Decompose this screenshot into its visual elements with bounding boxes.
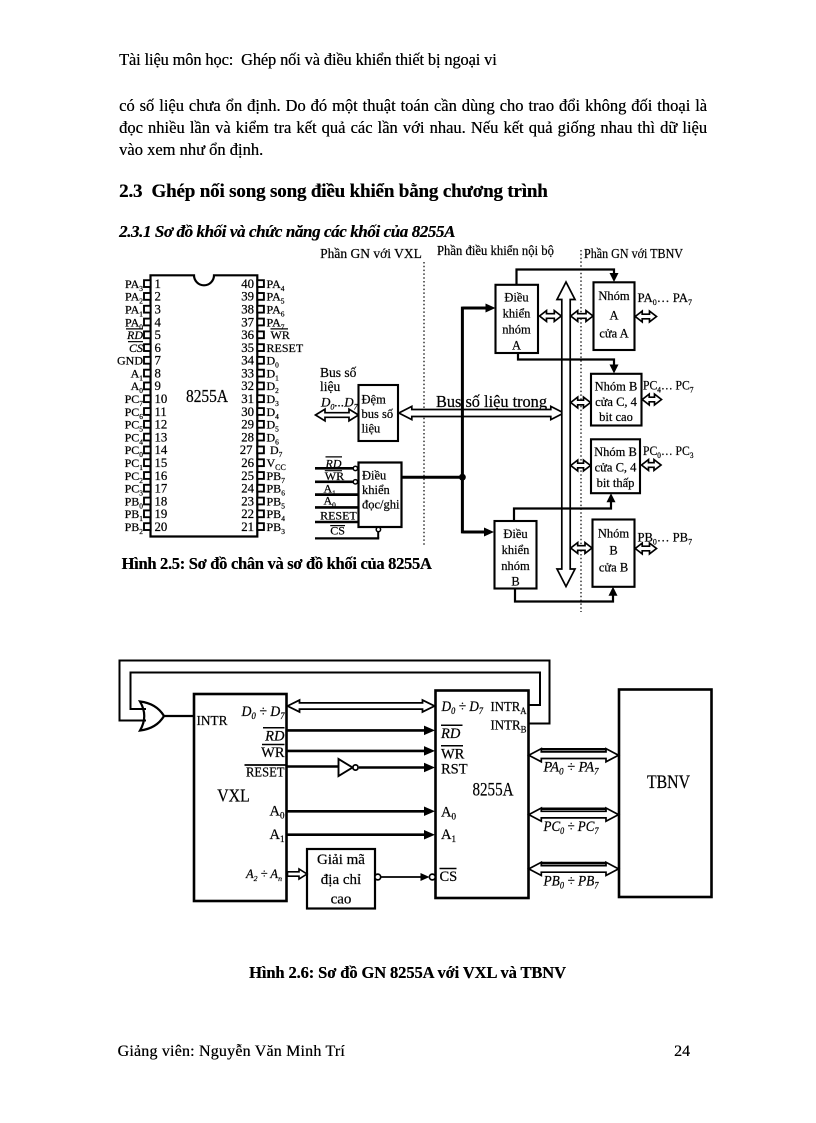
svg-text:PC0​… PC3​: PC0​… PC3​ bbox=[643, 443, 694, 460]
bus arrow: external data bus (double-headed open arrow) bbox=[316, 409, 359, 421]
svg-text:Nhóm: Nhóm bbox=[598, 527, 630, 541]
pin 10 (left) square, number and label bbox=[144, 395, 151, 402]
bus arrow: internal bus to Nhom B cua B bbox=[571, 543, 592, 554]
pin 20 (left) square, number and label bbox=[144, 523, 151, 530]
dotted divider line 2 bbox=[580, 250, 582, 612]
svg-text:đọc/ghi: đọc/ghi bbox=[362, 498, 400, 512]
block: TBNV (peripheral) bbox=[619, 690, 712, 898]
svg-text:Bus số: Bus số bbox=[320, 365, 357, 380]
pin 8 (left) square, number and label bbox=[144, 370, 151, 377]
svg-text:A: A bbox=[512, 339, 521, 353]
pin 17 (left) square, number and label bbox=[144, 485, 151, 492]
svg-text:Phần điều khiển nội bộ: Phần điều khiển nội bộ bbox=[437, 243, 554, 258]
pin 15 (left) square, number and label bbox=[144, 459, 151, 466]
bus arrow: internal data bus (long open double arrow) bbox=[399, 406, 564, 419]
inverter (NOT gate) on RESET line bbox=[339, 759, 353, 776]
body paragraph bbox=[119, 95, 707, 140]
svg-text:21: 21 bbox=[241, 520, 254, 534]
pin 23 (right) square, number and label bbox=[257, 498, 264, 505]
block: Nhom B cua C 4 bit cao (port C upper) bbox=[591, 374, 642, 426]
pin 35 (right) square, number and label bbox=[257, 344, 264, 351]
svg-text:Bus số liệu trong: Bus số liệu trong bbox=[436, 392, 548, 411]
svg-text:CS: CS bbox=[440, 869, 458, 885]
pin 29 (right) square, number and label bbox=[257, 421, 264, 428]
svg-text:PB0​ ÷ PB7​: PB0​ ÷ PB7​ bbox=[543, 873, 599, 890]
wire: RESET line into inverter bbox=[287, 765, 339, 768]
svg-text:A2​ ÷ An​: A2​ ÷ An​ bbox=[245, 867, 282, 883]
pin 1 (left) square, number and label bbox=[144, 280, 151, 287]
pin 39 (right) square, number and label bbox=[257, 293, 264, 300]
pin 13 (left) square, number and label bbox=[144, 434, 151, 441]
block: Giai ma dia chi cao (address decoder) bbox=[307, 849, 375, 909]
pin 9 (left) square, number and label bbox=[144, 383, 151, 390]
svg-text:D0​ ÷ D7​: D0​ ÷ D7​ bbox=[241, 704, 285, 721]
wire+arrow: A0 line bbox=[287, 810, 426, 813]
svg-text:VXL: VXL bbox=[217, 786, 250, 806]
wire: vertical control trunk bbox=[461, 307, 464, 534]
bus arrow: Nhom B cua C thap to pins PC lo bbox=[642, 460, 662, 471]
pin 16 (left) square, number and label bbox=[144, 472, 151, 479]
block: Nhom B cua C 4 bit thap (port C lower) bbox=[591, 439, 640, 493]
wire+arrow: RD line bbox=[287, 729, 426, 732]
block: Dieu khien nhom B (group B control) bbox=[495, 521, 537, 589]
wire+arrow: A1 line bbox=[287, 833, 426, 836]
svg-text:PA0​… PA7​: PA0​… PA7​ bbox=[638, 290, 693, 307]
svg-text:Nhóm B: Nhóm B bbox=[594, 445, 637, 459]
bus arrow: internal bus to Nhom B cua C cao bbox=[571, 397, 591, 408]
pin 4 (left) square, number and label bbox=[144, 319, 151, 326]
svg-text:INTR: INTR bbox=[197, 714, 229, 729]
svg-text:Đệm: Đệm bbox=[362, 393, 387, 407]
pin 34 (right) square, number and label bbox=[257, 357, 264, 364]
svg-text:PC4​… PC7​: PC4​… PC7​ bbox=[643, 378, 694, 395]
junction node bbox=[459, 474, 466, 481]
svg-text:Giải mã: Giải mã bbox=[317, 852, 365, 868]
page footer bbox=[118, 1043, 345, 1061]
svg-text:nhóm: nhóm bbox=[502, 323, 531, 337]
svg-text:8255A: 8255A bbox=[186, 386, 229, 406]
svg-text:khiển: khiển bbox=[503, 307, 532, 321]
svg-text:Phần GN với VXL: Phần GN với VXL bbox=[320, 246, 422, 261]
pin 36 (right) square, number and label bbox=[257, 331, 264, 338]
wire: doc/ghi output to control trunk with junction bbox=[402, 476, 464, 479]
heading 2.3 bbox=[119, 181, 548, 203]
block: 8255A U2 bbox=[436, 691, 529, 899]
pin 19 (left) square, number and label bbox=[144, 510, 151, 517]
wire: decoder output to CS with bubbles and arrow bbox=[375, 874, 381, 880]
svg-text:RST: RST bbox=[441, 762, 468, 778]
pin 7 (left) square, number and label bbox=[144, 357, 151, 364]
wire: INTRB feedback loop (outer) bbox=[120, 661, 550, 724]
pin 27 (right) square, number and label bbox=[257, 447, 264, 454]
or-gate G1 (interrupt combine) bbox=[140, 702, 164, 731]
svg-text:PB0​… PB7​: PB0​… PB7​ bbox=[638, 530, 693, 547]
pin 37 (right) square, number and label bbox=[257, 319, 264, 326]
svg-text:cửa B: cửa B bbox=[599, 561, 628, 575]
bus arrow: PA0-PA7 between 8255A and TBNV bbox=[529, 749, 619, 762]
block: Dem bus so lieu (data bus buffer) bbox=[359, 385, 399, 441]
svg-text:WR: WR bbox=[441, 747, 465, 763]
svg-text:B: B bbox=[609, 544, 617, 558]
wire: nhom A bottom to Nhom B cua C cao (arrow down) bbox=[518, 353, 614, 366]
bus arrow: vertical internal bus (long open double arrow) bbox=[557, 282, 575, 587]
bus arrow: D0-D7 between VXL and 8255A bbox=[288, 700, 435, 712]
pin 33 (right) square, number and label bbox=[257, 370, 264, 377]
pin 5 (left) square, number and label bbox=[144, 331, 151, 338]
svg-text:RD: RD bbox=[440, 726, 461, 742]
pin 6 (left) square, number and label bbox=[144, 344, 151, 351]
block: Nhom A cua A (port A) bbox=[594, 282, 635, 350]
pin 14 (left) square, number and label bbox=[144, 447, 151, 454]
svg-text:8255A: 8255A bbox=[473, 779, 514, 800]
pin 3 (left) square, number and label bbox=[144, 306, 151, 313]
svg-text:bit thấp: bit thấp bbox=[597, 476, 635, 490]
pin 26 (right) square, number and label bbox=[257, 459, 264, 466]
pin 28 (right) square, number and label bbox=[257, 434, 264, 441]
bus arrow: nhom A ctrl to internal bus bbox=[540, 311, 562, 322]
svg-text:RESET: RESET bbox=[246, 766, 285, 781]
svg-text:cao: cao bbox=[331, 892, 352, 908]
pin 22 (right) square, number and label bbox=[257, 510, 264, 517]
svg-text:cửa A: cửa A bbox=[599, 327, 628, 341]
svg-text:liệu: liệu bbox=[320, 379, 340, 394]
page header bbox=[119, 50, 497, 70]
pin 32 (right) square, number and label bbox=[257, 383, 264, 390]
bus arrow: Nhom B cua C cao to pins PC hi bbox=[642, 394, 661, 405]
pin 25 (right) square, number and label bbox=[257, 472, 264, 479]
wire: nhom A top to Nhom A cua A (arrow down) bbox=[517, 270, 615, 286]
svg-text:PC0​ ÷ PC7​: PC0​ ÷ PC7​ bbox=[543, 819, 599, 836]
block: Nhom B cua B (port B) bbox=[593, 520, 635, 587]
svg-text:liệu: liệu bbox=[362, 422, 381, 436]
svg-text:Phần GN với TBNV: Phần GN với TBNV bbox=[584, 246, 683, 261]
svg-text:Điều: Điều bbox=[503, 527, 528, 541]
pin 30 (right) square, number and label bbox=[257, 408, 264, 415]
pin 12 (left) square, number and label bbox=[144, 421, 151, 428]
block: Dieu khien doc/ghi (read/write control) bbox=[359, 463, 402, 528]
svg-text:B: B bbox=[511, 575, 519, 589]
pin 2 (left) square, number and label bbox=[144, 293, 151, 300]
bus arrow: Nhom B cua B to pins PB bbox=[635, 543, 656, 554]
pin 11 (left) square, number and label bbox=[144, 408, 151, 415]
pin 24 (right) square, number and label bbox=[257, 485, 264, 492]
wire+arrow: WR line bbox=[287, 750, 426, 753]
svg-text:Điều: Điều bbox=[362, 469, 387, 483]
svg-text:D0​ ÷ D7​: D0​ ÷ D7​ bbox=[441, 699, 484, 716]
svg-text:bit cao: bit cao bbox=[599, 410, 633, 424]
svg-text:khiển: khiển bbox=[502, 543, 531, 557]
bus arrow: internal bus to Nhom A cua A bbox=[571, 311, 593, 322]
wire: OR output to VXL INTR bbox=[163, 715, 194, 717]
pin 40 (right) square, number and label bbox=[257, 280, 264, 287]
wire: nhom B top to Nhom B cua C thap (arrow up) bbox=[514, 502, 611, 522]
pin 18 (left) square, number and label bbox=[144, 498, 151, 505]
svg-text:Điều: Điều bbox=[504, 291, 529, 305]
svg-text:Nhóm B: Nhóm B bbox=[595, 380, 638, 394]
wire: nhom B bottom to Nhom B cua B (arrow up) bbox=[515, 588, 613, 602]
pin 21 (right) square, number and label bbox=[257, 523, 264, 530]
svg-text:TBNV: TBNV bbox=[647, 773, 691, 793]
svg-text:20: 20 bbox=[155, 520, 168, 534]
svg-text:cửa C, 4: cửa C, 4 bbox=[595, 461, 638, 475]
wire: INTRA feedback loop (inner) bbox=[131, 673, 541, 710]
svg-text:RD: RD bbox=[264, 729, 285, 745]
pin 38 (right) square, number and label bbox=[257, 306, 264, 313]
svg-text:WR: WR bbox=[261, 745, 285, 761]
svg-text:A: A bbox=[609, 309, 618, 323]
svg-text:cửa C, 4: cửa C, 4 bbox=[595, 395, 638, 409]
wire+arrow: RST line to 8255A bbox=[359, 766, 426, 769]
pin 31 (right) square, number and label bbox=[257, 395, 264, 402]
svg-text:địa chỉ: địa chỉ bbox=[321, 872, 361, 888]
bus arrow: PB0-PB7 between 8255A and TBNV bbox=[529, 862, 619, 875]
bus arrow: internal bus to Nhom B cua C thap bbox=[571, 460, 591, 471]
svg-text:bus số: bus số bbox=[362, 407, 394, 421]
svg-text:nhóm: nhóm bbox=[501, 559, 530, 573]
svg-text:RESET: RESET bbox=[320, 509, 357, 523]
bus arrow: Nhom A cua A to pins PA bbox=[635, 311, 656, 322]
block: VXL (microprocessor) bbox=[194, 694, 287, 901]
bus arrow: PC0-PC7 between 8255A and TBNV bbox=[529, 808, 619, 821]
caption figure 2.5 bbox=[122, 554, 432, 574]
svg-text:Nhóm: Nhóm bbox=[598, 289, 630, 303]
dotted divider line 1 bbox=[423, 262, 425, 545]
wire+arrow into Dieu khien nhom B bbox=[462, 531, 486, 534]
IC body U1 8255A (DIP-40 outline with notch) bbox=[151, 275, 258, 536]
wire+arrow into Dieu khien nhom A bbox=[462, 307, 487, 310]
block: Dieu khien nhom A (group A control) bbox=[496, 285, 539, 353]
svg-text:PA0​ ÷ PA7​: PA0​ ÷ PA7​ bbox=[543, 760, 599, 777]
heading 2.3.1 bbox=[119, 222, 455, 242]
caption figure 2.6 bbox=[249, 963, 566, 983]
bus arrow: A2-An into decoder bbox=[288, 869, 308, 879]
svg-text:khiển: khiển bbox=[362, 483, 391, 497]
